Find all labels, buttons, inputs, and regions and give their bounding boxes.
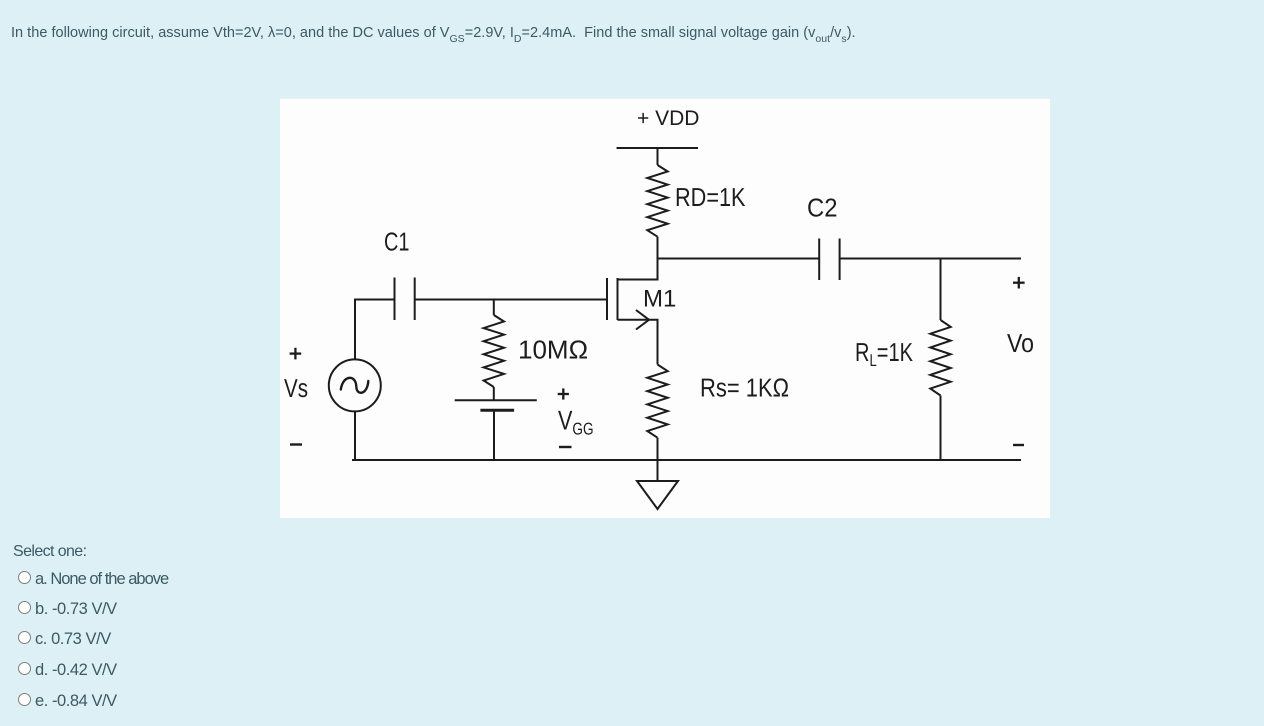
resistor RL bbox=[930, 320, 950, 396]
label Vo bbox=[1007, 328, 1034, 358]
wire C1 to gate bbox=[415, 299, 606, 301]
wire node to RL bbox=[940, 259, 942, 321]
wire Vs to bottom bbox=[354, 411, 356, 461]
resistor Rs bbox=[647, 365, 667, 438]
label minus output bbox=[1013, 444, 1024, 446]
svg-text:10MΩ: 10MΩ bbox=[518, 335, 588, 365]
wire 10M to battery bbox=[493, 387, 495, 401]
label minus Vs bbox=[290, 443, 302, 445]
svg-text:C1: C1 bbox=[384, 227, 410, 257]
label RD=1K bbox=[675, 182, 746, 212]
capacitor C1 bbox=[395, 278, 415, 321]
resistor 10M bbox=[484, 315, 504, 387]
label VGG bbox=[558, 406, 594, 439]
ground bbox=[637, 481, 678, 509]
label C2 bbox=[807, 193, 838, 223]
svg-text:RD=1K: RD=1K bbox=[675, 182, 746, 212]
label plus Vs bbox=[290, 348, 302, 360]
battery VGG negative plate bbox=[480, 409, 514, 412]
wire C2 to output bbox=[840, 258, 1021, 260]
wire bottom rail bbox=[352, 459, 1021, 461]
svg-text:VGG: VGG bbox=[558, 406, 594, 439]
wire RD to drain bbox=[657, 237, 659, 281]
battery VGG positive plate bbox=[455, 399, 537, 401]
label C1 bbox=[384, 227, 410, 257]
transistor M1 source lead bbox=[618, 320, 658, 365]
label +VDD bbox=[637, 107, 699, 130]
svg-text:Vo: Vo bbox=[1007, 328, 1034, 358]
label plus output bbox=[1013, 277, 1025, 289]
label RL=1K bbox=[855, 337, 913, 370]
label minus VGG bbox=[559, 446, 572, 448]
label plus VGG bbox=[558, 388, 569, 399]
wire RL to bottom bbox=[940, 396, 942, 462]
wire Vs to C1 bbox=[355, 300, 395, 360]
svg-text:M1: M1 bbox=[643, 286, 676, 313]
svg-text:Vs: Vs bbox=[284, 373, 308, 403]
transistor M1 gate bar bbox=[606, 278, 608, 320]
transistor M1 drain lead bbox=[618, 279, 658, 281]
wire VDD rail bbox=[617, 147, 699, 149]
wire VDD to RD bbox=[657, 148, 659, 165]
svg-text:RL=1K: RL=1K bbox=[855, 337, 913, 370]
transistor M1 channel bar bbox=[617, 278, 619, 320]
wire gate node to 10M resistor bbox=[493, 300, 495, 316]
label M1 bbox=[643, 286, 676, 313]
resistor RD bbox=[647, 165, 667, 237]
wire drain node to C2 bbox=[657, 258, 820, 260]
svg-text:+ VDD: + VDD bbox=[637, 107, 699, 130]
label 10M bbox=[518, 335, 588, 365]
transistor M1 source arrow bbox=[636, 310, 649, 330]
wire bottom to ground bbox=[657, 460, 659, 481]
label Rs bbox=[700, 373, 789, 403]
capacitor C2 bbox=[819, 239, 839, 281]
svg-text:C2: C2 bbox=[807, 193, 838, 223]
source Vs circle bbox=[329, 359, 381, 411]
wire battery to bottom bbox=[493, 410, 495, 461]
label Vs bbox=[284, 373, 308, 403]
source Vs sine bbox=[341, 378, 369, 393]
wire Rs to bottom bbox=[657, 438, 659, 461]
svg-text:Rs= 1KΩ: Rs= 1KΩ bbox=[700, 373, 789, 403]
